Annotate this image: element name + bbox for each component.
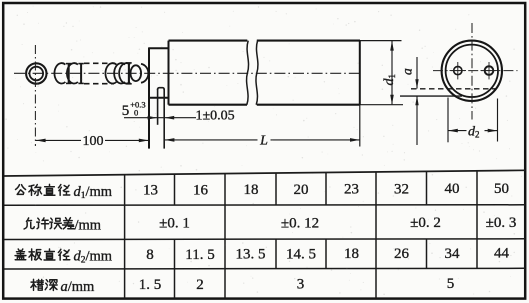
svg-text:±0. 3: ±0. 3 bbox=[486, 215, 517, 231]
spring coil 2 bbox=[67, 63, 84, 84]
svg-text:50: 50 bbox=[494, 181, 509, 197]
svg-text:d2: d2 bbox=[468, 124, 480, 139]
svg-text:5: 5 bbox=[122, 103, 130, 119]
svg-text:3: 3 bbox=[297, 277, 305, 293]
svg-text:8: 8 bbox=[146, 247, 154, 263]
groove slot rounded top bbox=[158, 88, 165, 90]
svg-text:/mm: /mm bbox=[75, 217, 102, 233]
node: left pin end view double circle bbox=[26, 63, 46, 83]
table row line 1/2 bbox=[4, 204, 525, 206]
end view left hole bbox=[450, 62, 467, 79]
spring coil 1 bbox=[54, 63, 71, 84]
end view inner circle (cover plate) bbox=[446, 45, 498, 97]
svg-text:5: 5 bbox=[447, 276, 455, 292]
dimension L bbox=[165, 133, 360, 148]
groove slot right wall + L extension bbox=[163, 89, 165, 149]
svg-text:20: 20 bbox=[294, 182, 309, 198]
svg-text:34: 34 bbox=[445, 246, 461, 262]
table column lines bbox=[125, 171, 477, 299]
table row 3 values bbox=[146, 246, 509, 263]
svg-text:32: 32 bbox=[394, 181, 409, 197]
d1 bottom extension line bbox=[360, 104, 403, 106]
cover plug bottom edge bbox=[148, 97, 168, 99]
tube right end edge bbox=[359, 41, 361, 105]
table header row 4: 槽深 a/mm bbox=[31, 279, 95, 295]
table row 1 values bbox=[143, 181, 509, 198]
svg-text:44: 44 bbox=[494, 246, 510, 262]
value label 5 +0.3/0 bbox=[122, 99, 146, 119]
svg-text:11. 5: 11. 5 bbox=[185, 247, 214, 263]
svg-text:d1/mm: d1/mm bbox=[74, 184, 113, 201]
spring coil 5 with end bar bbox=[119, 63, 132, 84]
cover plug top edge bbox=[148, 47, 168, 49]
svg-text:a/mm: a/mm bbox=[61, 279, 96, 295]
svg-text:2: 2 bbox=[196, 277, 204, 293]
svg-text:16: 16 bbox=[193, 182, 209, 198]
dimension a (groove depth, between views) bbox=[400, 57, 419, 145]
svg-text:13: 13 bbox=[143, 182, 158, 198]
svg-text:14. 5: 14. 5 bbox=[286, 246, 316, 262]
table row 2 values bbox=[159, 215, 516, 232]
svg-text:±0. 1: ±0. 1 bbox=[159, 216, 190, 232]
wire: main axis center line bbox=[14, 72, 360, 74]
dimension 5 +0.3/0 and 1±0.05 line bbox=[124, 117, 196, 119]
svg-text:±0. 2: ±0. 2 bbox=[410, 215, 441, 231]
tube break line right bbox=[256, 41, 258, 105]
cover plug left edge + extension line bbox=[148, 48, 150, 149]
svg-text:a: a bbox=[400, 68, 415, 75]
end view right hole bbox=[481, 62, 498, 79]
end view outer circle bbox=[442, 41, 502, 101]
svg-text:26: 26 bbox=[394, 246, 410, 262]
svg-text:d2/mm: d2/mm bbox=[74, 249, 113, 266]
groove slot left wall + extension bbox=[157, 89, 159, 125]
table row 4 values bbox=[139, 276, 455, 293]
spring coil 4 bbox=[114, 63, 125, 83]
svg-text:0: 0 bbox=[134, 107, 138, 117]
table row line 2/3 bbox=[4, 238, 525, 241]
tube bottom edge bbox=[169, 104, 248, 106]
L right extension line bbox=[359, 105, 361, 147]
d1 top extension line bbox=[360, 40, 402, 42]
end view horizontal center line bbox=[433, 70, 518, 72]
tube left edge bbox=[168, 41, 170, 105]
table row line 3/4 bbox=[4, 267, 525, 270]
svg-text:1±0.05: 1±0.05 bbox=[196, 108, 235, 123]
end view vertical center line bbox=[471, 23, 473, 120]
svg-text:18: 18 bbox=[344, 246, 359, 262]
dimension d2 bbox=[448, 98, 498, 143]
table header row 3: 盖板直径 d2/mm bbox=[15, 249, 113, 266]
hidden groove bottom line (dashed) bbox=[411, 88, 496, 90]
svg-text:13. 5: 13. 5 bbox=[236, 247, 266, 263]
svg-text:±0. 12: ±0. 12 bbox=[281, 215, 319, 231]
groove surface line (solid) bbox=[400, 95, 462, 97]
spring coil 3 bbox=[105, 63, 116, 83]
table header row 2: 允许误差/mm bbox=[24, 217, 102, 233]
svg-text:d1: d1 bbox=[382, 74, 397, 86]
svg-text:1. 5: 1. 5 bbox=[139, 277, 162, 293]
wire: vertical center line of pin circle bbox=[34, 45, 36, 146]
tube top edge bbox=[169, 40, 248, 42]
dimension d1 bbox=[382, 41, 397, 105]
table header row 1: 公称直径 d1/mm bbox=[16, 184, 113, 201]
tube break line left bbox=[247, 41, 249, 105]
svg-text:18: 18 bbox=[244, 182, 259, 198]
svg-text:L: L bbox=[259, 133, 268, 148]
svg-text:23: 23 bbox=[344, 182, 359, 198]
pin rounded end arc bbox=[141, 64, 148, 83]
wire: hidden outline dashes of spring middle bbox=[84, 63, 114, 83]
spring end coil ellipse bbox=[131, 65, 142, 81]
svg-text:100: 100 bbox=[83, 134, 104, 149]
table top line bbox=[4, 170, 525, 176]
dimension 100 bbox=[36, 134, 149, 149]
